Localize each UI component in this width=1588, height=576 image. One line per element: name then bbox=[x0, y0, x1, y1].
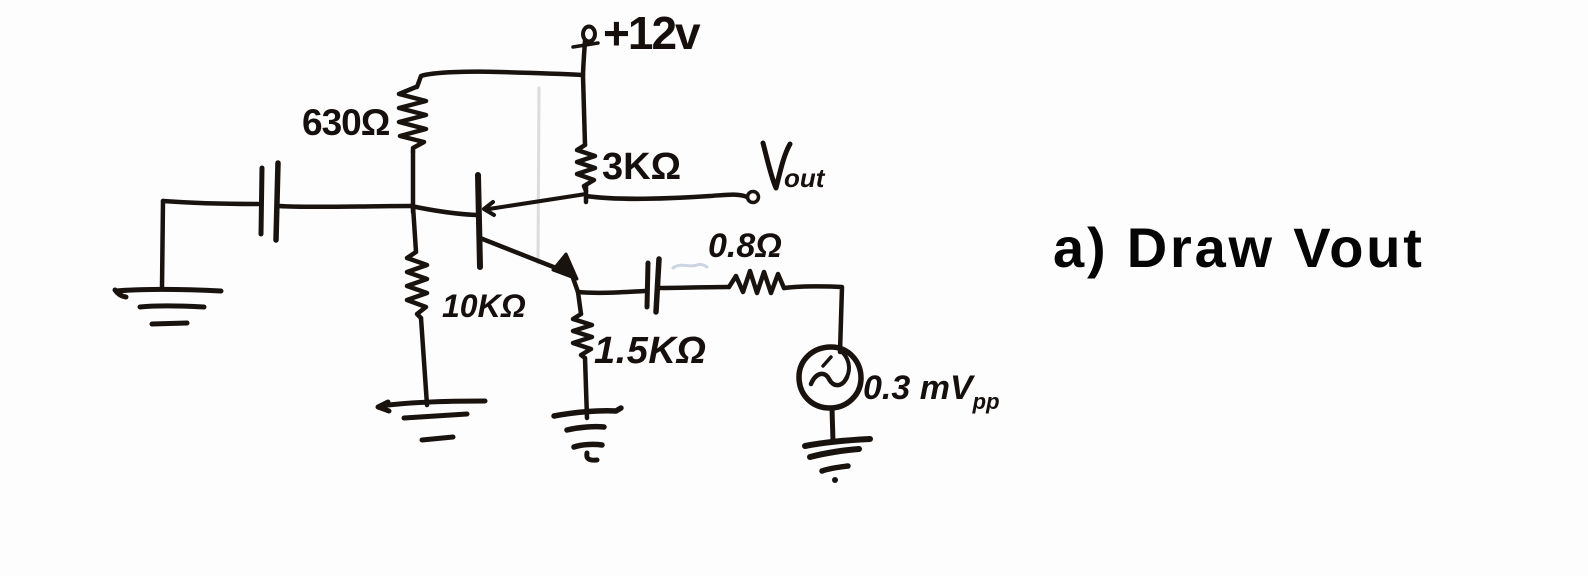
caption a) Draw Vout bbox=[1053, 216, 1425, 279]
capacitor C1 input coupling bbox=[261, 163, 278, 240]
resistor R1 630 ohm bbox=[399, 87, 426, 152]
node +12V terminal circle bbox=[573, 27, 598, 48]
faint blue scan squiggle bbox=[673, 264, 707, 268]
wire C1 to base node bbox=[279, 204, 411, 209]
svg-text:10KΩ: 10KΩ bbox=[442, 288, 526, 324]
wire input left segment bbox=[163, 201, 258, 204]
svg-text:1.5KΩ: 1.5KΩ bbox=[594, 330, 706, 372]
wire +12V node down to top rail and 3K top bbox=[583, 41, 585, 145]
resistor R4 1.5K ohm bbox=[573, 314, 592, 358]
wire C2 to R5 bbox=[659, 287, 729, 288]
label 3K ohm bbox=[602, 146, 681, 188]
wire R1 bottom to base node bbox=[411, 152, 416, 212]
source V1 circle bbox=[799, 347, 861, 408]
resistor R2 3K ohm bbox=[577, 145, 595, 191]
svg-text:0.8Ω: 0.8Ω bbox=[708, 227, 782, 265]
label 630 ohm bbox=[302, 102, 390, 143]
wire base node to transistor base bbox=[411, 206, 476, 215]
resistor R3 10K ohm bbox=[407, 206, 427, 318]
svg-text:+12v: +12v bbox=[603, 7, 701, 59]
label 10K ohm bbox=[442, 288, 526, 324]
wire R5 to source corner bbox=[784, 286, 842, 352]
wire R3 bottom to ground bbox=[421, 318, 427, 405]
wire left input down to ground bbox=[162, 201, 163, 288]
node Vout terminal circle bbox=[748, 192, 759, 203]
wire top rail bbox=[417, 72, 583, 87]
label +12v bbox=[603, 7, 701, 59]
faint scan artifact vertical line bbox=[538, 88, 539, 263]
wire collector node to Vout bbox=[586, 185, 747, 202]
transistor Q1 base bar bbox=[478, 175, 480, 267]
ground under R3 bbox=[378, 401, 485, 440]
resistor R5 0.8 ohm bbox=[729, 271, 784, 293]
svg-text:3KΩ: 3KΩ bbox=[602, 146, 681, 188]
svg-text:0.3 mVpp: 0.3 mVpp bbox=[863, 369, 1000, 414]
wire emitter node to C2 bbox=[578, 291, 645, 293]
label 0.8 ohm bbox=[708, 227, 782, 265]
svg-text:630Ω: 630Ω bbox=[302, 102, 390, 143]
ground under source bbox=[805, 439, 870, 483]
wire emitter node down to R4 bbox=[578, 292, 581, 314]
ground under R4 bbox=[554, 408, 621, 460]
label 0.3 mVpp bbox=[863, 369, 1000, 414]
capacitor C2 emitter coupling bbox=[647, 259, 659, 312]
transistor Q1 emitter line with arrowhead bbox=[480, 238, 578, 292]
label Vout bbox=[763, 143, 826, 193]
wire source bottom to ground bbox=[832, 408, 833, 442]
source V1 sine squiggle bbox=[811, 351, 849, 385]
wire R4 bottom to ground bbox=[585, 358, 587, 418]
ground input left bbox=[115, 290, 221, 325]
label 1.5K ohm bbox=[594, 330, 706, 372]
svg-text:out: out bbox=[784, 163, 826, 193]
transistor Q1 collector line with arrow bbox=[484, 194, 586, 215]
svg-text:a) Draw Vout: a) Draw Vout bbox=[1053, 216, 1425, 279]
